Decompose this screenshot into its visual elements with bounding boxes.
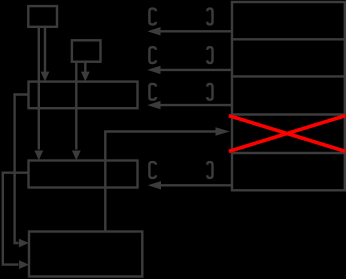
arrow line row3 left [159,104,231,106]
arrowhead row3 left [147,101,160,109]
box second small [72,40,101,61]
arrowhead into box B from box1 line [34,151,43,161]
arrowhead row1 left [147,27,160,35]
arrow line row5 left [159,184,231,186]
bracket right row5 [207,162,212,178]
queue divider 3 [231,113,346,115]
wide box B [29,161,138,188]
bracket right row2 [207,47,212,63]
bracket left row2 [149,47,156,63]
bracket left row5 [149,162,156,178]
arrowhead into box B from box2 line [72,151,81,161]
bracket right row3 [207,84,212,100]
bracket right row1 [207,9,212,25]
arrowhead row2 left [147,66,160,74]
arrowhead row5 left [148,181,161,189]
wire box2 left line down through A to B [75,62,77,150]
wide box A [29,82,138,109]
wire box1 left line down through A to B [38,27,40,150]
arrowhead into queue row4 [216,127,230,136]
wire box1 right line down to A [44,27,46,72]
queue divider 1 [231,38,346,40]
wire B left stub to C [3,173,29,265]
bracket left row1 [149,9,156,25]
arrow line row2 left [159,69,231,71]
arrowhead into box A from box1 [41,72,50,82]
wide box C bottom [29,232,142,277]
wire A left stub to C [15,95,29,244]
arrow line row1 left [159,30,231,32]
queue divider 4 [231,152,346,154]
arrowheads [19,27,230,269]
wire box2 right line down to A [84,62,86,72]
packet brackets [149,9,212,178]
bracket left row3 [149,84,156,100]
queue divider 2 [231,75,346,77]
wire C top up and right to queue row4 [105,132,216,232]
red X drop mark [229,116,346,152]
queue column outer rect [232,2,345,190]
arrowhead into box C upper [19,239,29,248]
arrowhead into box C lower [19,260,29,269]
arrowhead into box A from box2 [81,72,90,82]
box top-left small [28,6,57,27]
